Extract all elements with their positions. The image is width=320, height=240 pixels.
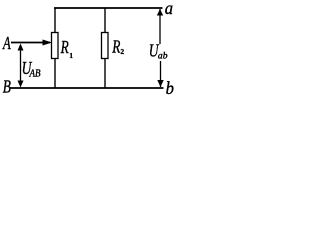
svg-text:B: B <box>3 78 11 97</box>
svg-text:2: 2 <box>121 47 125 56</box>
svg-text:R: R <box>60 38 69 57</box>
svg-text:a: a <box>165 0 173 18</box>
svg-text:1: 1 <box>69 51 73 60</box>
svg-text:R: R <box>111 38 120 57</box>
svg-text:AB: AB <box>29 69 41 80</box>
svg-text:ab: ab <box>158 51 168 62</box>
svg-text:b: b <box>166 79 174 98</box>
svg-text:A: A <box>2 34 11 54</box>
